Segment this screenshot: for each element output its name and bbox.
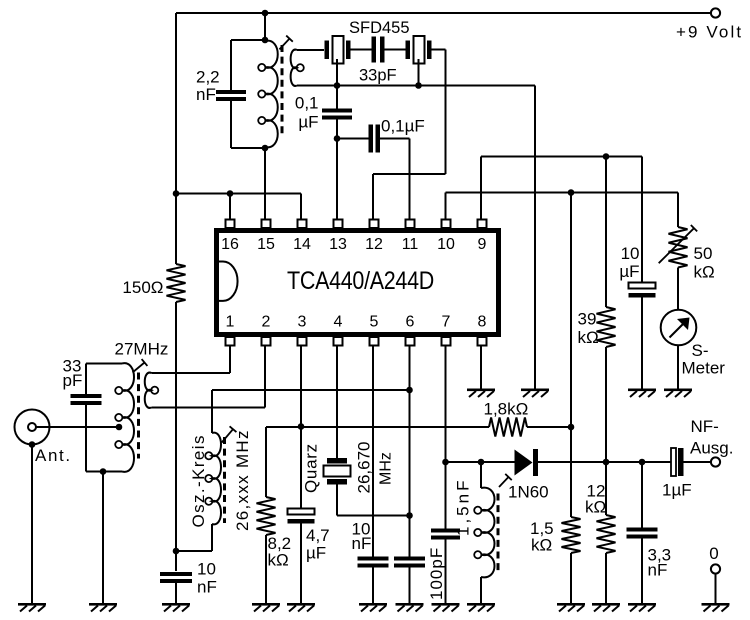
node tank top: [262, 37, 269, 44]
wire 2.2nF branch upper: [230, 40, 232, 90]
ground AGC mid: [521, 389, 549, 392]
svg-text:MHz: MHz: [378, 452, 395, 485]
ground 10nF pin5: [359, 603, 387, 606]
svg-text:1,8kΩ: 1,8kΩ: [484, 400, 529, 419]
filter SFD455 resonator 1: [325, 41, 330, 60]
node demod coil tap: [478, 459, 485, 466]
svg-text:14: 14: [293, 236, 311, 253]
node coil tap: [116, 424, 123, 431]
wire 3.3nF drop: [641, 462, 643, 528]
meter S-Meter: [661, 310, 697, 346]
node 12k detector junction: [603, 459, 610, 466]
resistor 12k: [597, 515, 616, 553]
terminal +9 Volt: [711, 8, 720, 17]
capacitor 10nF pin5: [358, 557, 389, 561]
IC pin stubs top: [226, 220, 235, 229]
wire pin 9 riser: [480, 157, 482, 221]
resistor 50k potentiometer: [669, 227, 688, 268]
node 3.3nF junction: [639, 459, 646, 466]
wire 8.2k drop: [265, 427, 267, 497]
node 39k junction: [603, 153, 610, 160]
wire 0 terminal ground: [715, 574, 717, 604]
svg-text:39: 39: [578, 310, 597, 329]
wire crystal to pin6 line: [337, 515, 410, 517]
svg-text:µF: µF: [298, 113, 318, 132]
svg-text:µF: µF: [306, 544, 326, 563]
wire resonator1 bottom tap: [336, 59, 338, 86]
node osc supply junction: [173, 548, 180, 555]
wire tank to pin 15: [264, 148, 266, 220]
wire 1.5k drop from pin10 rail: [570, 193, 572, 428]
resistor 8.2k: [257, 497, 276, 535]
svg-text:7: 7: [442, 314, 451, 331]
terminal NF-Ausg.: [711, 457, 720, 466]
wire pin 2 to input secondary: [152, 407, 266, 409]
wire left supply vertical upper: [175, 13, 177, 264]
svg-text:0: 0: [709, 544, 718, 563]
node 1.8k/1.5k: [568, 424, 575, 431]
wire filter output right: [432, 49, 446, 51]
wire 3.3nF ground: [641, 539, 643, 604]
wire pin 6 down: [409, 346, 411, 557]
inductor IF transformer secondary: [291, 50, 297, 86]
wire 12k ground: [605, 553, 607, 603]
trimmer arrow 27MHz: [133, 363, 145, 373]
svg-text:nF: nF: [197, 578, 217, 597]
trimmer arrow demod coil: [499, 477, 509, 487]
crystal Quarz 26.670MHz: [327, 458, 347, 464]
capacitor 3.3nF: [627, 528, 658, 532]
wire pin 14 riser: [300, 194, 302, 221]
svg-text:kΩ: kΩ: [531, 536, 552, 555]
capacitor 1uF output electrolytic: [671, 448, 676, 476]
wire secondary top to filter: [297, 49, 324, 51]
node input tank ground tap: [100, 468, 107, 475]
core osc coil: [223, 437, 226, 523]
wire pin 8 down: [480, 346, 482, 390]
node filter tap 2: [415, 82, 422, 89]
svg-text:SFD455: SFD455: [349, 19, 410, 37]
wire 33pF branch upper: [85, 364, 87, 395]
wire input tank ground drop: [102, 472, 104, 604]
wire pot drop: [677, 193, 679, 228]
svg-text:S-: S-: [692, 341, 709, 360]
IC U1 TCA440/A244D: [217, 231, 499, 335]
svg-text:Osz.-Kreis: Osz.-Kreis: [189, 434, 208, 527]
svg-text:TCA440/A244D: TCA440/A244D: [287, 267, 434, 295]
wire resonator2 bottom tap: [418, 59, 420, 86]
ground 10uF: [628, 389, 656, 392]
inductor 27MHz secondary: [145, 373, 152, 408]
ground antenna: [18, 603, 46, 606]
wire 0.1uF to pin 13: [336, 120, 338, 221]
node pin16 junction: [227, 190, 234, 197]
wire to horizontal 0.1uF: [337, 138, 369, 140]
capacitor 0.1uF vertical: [322, 109, 352, 113]
node antenna bottom: [29, 441, 36, 448]
capacitor 33pF input: [71, 394, 102, 398]
wire rail to pins 16/14: [176, 193, 301, 195]
svg-text:2,2: 2,2: [196, 68, 220, 87]
svg-text:1,5nF: 1,5nF: [454, 478, 473, 536]
svg-text:pF: pF: [63, 371, 83, 390]
node 1.5k rail junction: [568, 189, 575, 196]
wire pin 12 riser: [372, 174, 374, 220]
ground meter: [664, 389, 692, 392]
inductor 27MHz primary: [122, 363, 134, 472]
svg-text:4,7: 4,7: [306, 526, 330, 545]
resistor 39k: [605, 157, 607, 308]
svg-text:100pF: 100pF: [427, 547, 446, 600]
wire tank bottom horizontal: [231, 147, 265, 149]
node tank bottom: [262, 145, 269, 152]
svg-text:0,1µF: 0,1µF: [381, 117, 425, 136]
wire filter output down: [445, 50, 447, 175]
wire tank top horizontal: [231, 39, 265, 41]
node filter tap 1: [334, 82, 341, 89]
svg-text:10: 10: [197, 560, 216, 579]
wire 12k drop: [605, 462, 607, 515]
node pin3 bias rail: [298, 423, 305, 430]
capacitor 2.2nF: [216, 90, 246, 94]
svg-text:Meter: Meter: [682, 359, 726, 378]
svg-text:0,1: 0,1: [295, 94, 319, 113]
wire pin 1 to input secondary: [152, 372, 231, 374]
inductor Osz.-Kreis: [212, 433, 221, 525]
wire demod coil drop: [480, 462, 482, 488]
capacitor 10uF electrolytic: [629, 283, 656, 289]
filter SFD455 resonator 2: [406, 41, 411, 60]
wire demod coil ground: [480, 577, 482, 603]
wire tank feed from rail: [264, 13, 266, 40]
wire input tank bottom: [86, 471, 122, 473]
wire crystal down: [336, 485, 338, 516]
diode 1N60: [515, 450, 533, 476]
svg-text:12: 12: [365, 236, 383, 253]
IC notch: [219, 262, 238, 301]
svg-text:11: 11: [402, 236, 419, 253]
wire secondary bottom rail: [297, 85, 535, 87]
wire 10nF to ground: [175, 583, 177, 603]
wire pin 4 down: [336, 346, 338, 459]
svg-text:13: 13: [329, 236, 347, 253]
svg-text:9: 9: [478, 236, 487, 253]
svg-text:16: 16: [221, 236, 239, 253]
core demod coil: [497, 494, 500, 572]
ground 12k: [592, 603, 620, 606]
svg-text:+9 Volt: +9 Volt: [676, 23, 743, 42]
svg-text:10: 10: [437, 236, 455, 253]
wire 0.1uF to pin 11: [380, 138, 410, 140]
ground 1.5nF: [432, 603, 460, 606]
wire 4.7uF to ground: [300, 524, 302, 604]
wire pin 5 down: [372, 346, 374, 557]
ground 8.2k: [252, 603, 280, 606]
wire osc rail: [212, 389, 410, 391]
rail 1.8k bias: [266, 426, 489, 428]
svg-text:26,670: 26,670: [355, 442, 374, 494]
ground pin 8: [467, 389, 495, 392]
svg-text:15: 15: [257, 236, 275, 253]
svg-text:nF: nF: [196, 85, 216, 104]
core 27MHz transformer: [137, 373, 140, 459]
wire pin 2 down: [264, 346, 266, 408]
wire AGC decoupling vertical: [534, 86, 536, 389]
node supply/150R junction: [173, 190, 180, 197]
wire to 0.1uF decoupling: [336, 86, 338, 109]
core IF transformer: [281, 45, 284, 134]
wire pin 11 riser: [409, 139, 411, 221]
wire 33pF branch lower: [85, 405, 87, 472]
svg-text:Ant.: Ant.: [35, 446, 72, 465]
wire detector line right: [538, 461, 672, 463]
capacitor 0.1uF horizontal: [369, 125, 374, 153]
ground 1.5k: [557, 603, 585, 606]
resistor 150 Ohm: [167, 264, 186, 302]
wire antenna to coil tap: [36, 426, 119, 428]
wire 39k to detector line: [605, 347, 607, 462]
svg-text:1µF: 1µF: [662, 481, 692, 500]
ground left 10nF: [162, 603, 190, 606]
svg-text:Ausg.: Ausg.: [690, 439, 733, 458]
wire resonator1 to 33pF cap: [351, 49, 373, 51]
svg-text:4: 4: [334, 314, 343, 331]
svg-text:3: 3: [298, 314, 307, 331]
svg-text:NF-: NF-: [691, 417, 719, 436]
wire osc coil drop: [211, 390, 213, 433]
wire 10nF pin5 ground: [372, 568, 374, 604]
capacitor 33pF coupling: [372, 37, 377, 63]
inductor demod coil: [481, 488, 495, 578]
wire osc coil bottom: [211, 524, 213, 551]
ground demod coil: [467, 603, 495, 606]
wire 100pF ground: [409, 568, 411, 604]
wire 8.2k ground: [265, 535, 267, 603]
wire 2.2nF branch lower: [230, 101, 232, 148]
wire 10uF to ground: [641, 298, 643, 390]
svg-text:nF: nF: [648, 561, 668, 580]
wire meter to ground: [677, 345, 679, 389]
inductor IF transformer primary: [265, 41, 278, 148]
svg-text:kΩ: kΩ: [585, 498, 606, 517]
svg-text:10: 10: [621, 244, 640, 263]
capacitor 1.5nF: [431, 529, 460, 533]
wire 33pF top rail: [86, 363, 122, 365]
wire 33pF to resonator2: [385, 49, 406, 51]
wire pot to meter: [677, 268, 679, 310]
wire pin 16 riser: [229, 194, 231, 221]
svg-text:µF: µF: [619, 262, 639, 281]
ground 4.7uF: [287, 603, 315, 606]
svg-text:1N60: 1N60: [508, 483, 549, 502]
svg-text:2: 2: [262, 314, 271, 331]
capacitor 100pF: [394, 557, 425, 561]
node rail/tank: [262, 10, 269, 17]
wire pin 1 down: [229, 346, 231, 374]
svg-text:5: 5: [370, 314, 379, 331]
wire 1.8k to 1.5k node: [527, 426, 571, 428]
wire pin 7 down: [445, 346, 447, 529]
trimmer arrow osc coil: [222, 429, 233, 442]
svg-text:50: 50: [694, 244, 713, 263]
ground input tank: [89, 603, 117, 606]
resistor 1.8k horizontal: [489, 418, 527, 437]
wire pin 10 rail: [446, 192, 679, 194]
antenna connector Ant.: [15, 410, 50, 445]
svg-text:1: 1: [226, 314, 235, 331]
svg-text:150Ω: 150Ω: [122, 278, 163, 297]
resistor 1.5k: [570, 427, 572, 517]
ground 3.3nF: [628, 603, 656, 606]
svg-text:6: 6: [406, 314, 415, 331]
node detector start: [442, 459, 449, 466]
wire pin 3 down: [300, 346, 302, 509]
wire osc coil to supply node: [176, 550, 212, 552]
wire +9V top rail: [176, 12, 711, 14]
wire 1.5k ground: [570, 553, 572, 603]
trimmer arrow IF transformer: [279, 39, 289, 50]
svg-text:Quarz: Quarz: [302, 443, 321, 493]
IC pin stubs bottom: [226, 337, 235, 346]
node osc rail/pin6: [406, 387, 413, 394]
svg-text:8: 8: [478, 314, 487, 331]
wire pin 10 riser: [445, 193, 447, 221]
wire 1.5nF ground: [445, 540, 447, 604]
capacitor 4.7uF electrolytic: [288, 509, 315, 515]
ground 0 terminal: [702, 603, 730, 606]
svg-text:kΩ: kΩ: [694, 263, 715, 282]
svg-text:26,xxx MHz: 26,xxx MHz: [233, 429, 252, 531]
capacitor 10nF left: [160, 572, 192, 576]
wire 10uF drop: [641, 157, 643, 284]
ground 100pF: [396, 603, 424, 606]
svg-text:27MHz: 27MHz: [115, 340, 169, 359]
svg-text:33pF: 33pF: [359, 67, 397, 85]
wire filter output left: [373, 173, 446, 175]
svg-text:kΩ: kΩ: [268, 551, 289, 570]
svg-text:nF: nF: [352, 534, 372, 553]
svg-text:kΩ: kΩ: [578, 328, 599, 347]
wire antenna ground drop: [31, 445, 33, 604]
wire detector line left: [446, 461, 515, 463]
node 0.1uF junction: [334, 135, 341, 142]
wire 150R down to 10nF: [175, 302, 177, 571]
node crystal/pin6: [406, 512, 413, 519]
wire 1uF to NF terminal: [684, 461, 712, 463]
wire pin 9 rail: [481, 156, 642, 158]
